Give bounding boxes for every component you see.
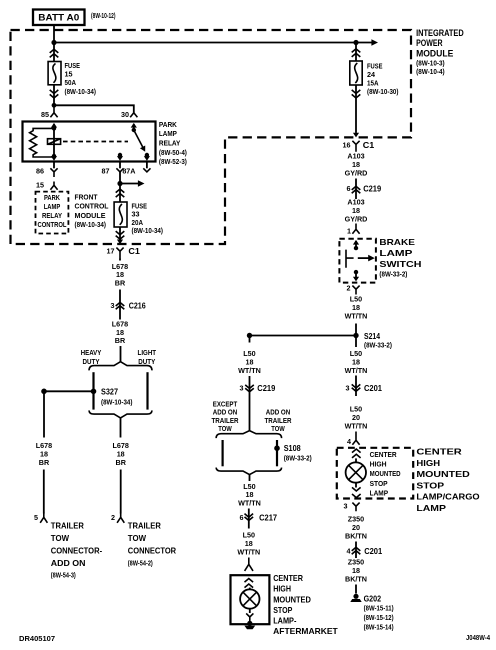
svg-text:CONTROL: CONTROL xyxy=(75,202,110,211)
brake switch node bottom xyxy=(354,270,358,274)
relay actuation dashed link xyxy=(63,141,128,143)
wire fuse 24 to C1 16 xyxy=(355,85,357,133)
wire label L50 20 WT/TN xyxy=(345,405,368,431)
svg-text:C201: C201 xyxy=(364,546,382,556)
park lamp relay label xyxy=(159,120,187,166)
svg-text:WT/TN: WT/TN xyxy=(345,366,368,375)
svg-text:LAMP: LAMP xyxy=(416,503,446,513)
relay switch wire from 30 xyxy=(133,124,135,130)
svg-text:CENTER: CENTER xyxy=(416,447,461,457)
svg-text:GY/RD: GY/RD xyxy=(345,215,368,224)
brake switch node top xyxy=(354,246,358,250)
pin 4 center high mounted stop lamp xyxy=(347,432,360,447)
svg-text:DUTY: DUTY xyxy=(138,357,155,366)
svg-text:DR405107: DR405107 xyxy=(19,636,55,643)
svg-text:CENTER: CENTER xyxy=(273,574,303,583)
svg-text:BK/TN: BK/TN xyxy=(345,575,367,584)
brake switch actuation arrow xyxy=(358,255,375,262)
wire label L678 18 BR (upper) xyxy=(112,259,128,288)
svg-text:WT/TN: WT/TN xyxy=(238,366,261,375)
brake lamp switch dashed box xyxy=(339,239,376,283)
svg-text:LAMP-: LAMP- xyxy=(273,617,296,626)
svg-text:J048W-4: J048W-4 xyxy=(466,635,490,642)
svg-text:AFTERMARKET: AFTERMARKET xyxy=(273,627,338,636)
relay coil xyxy=(48,139,61,145)
svg-text:BR: BR xyxy=(115,336,126,345)
svg-text:MODULE: MODULE xyxy=(75,211,106,220)
chmsl exit chevrons xyxy=(352,487,361,497)
connector C219 (middle) xyxy=(240,383,276,393)
relay node contact 87A xyxy=(145,153,149,157)
svg-text:TRAILER: TRAILER xyxy=(128,522,161,531)
svg-text:MOUNTED: MOUNTED xyxy=(416,469,469,479)
wire to C219 middle xyxy=(249,376,251,431)
wire into fuse 15 xyxy=(53,43,55,62)
svg-text:BR: BR xyxy=(116,458,127,467)
svg-text:(8W-54-2): (8W-54-2) xyxy=(128,561,153,568)
splice S108 brace bottom xyxy=(216,468,282,475)
svg-text:MOUNTED: MOUNTED xyxy=(370,469,401,478)
pin 86 xyxy=(36,162,58,178)
svg-text:(8W-10-30): (8W-10-30) xyxy=(367,89,399,96)
svg-text:(8W-54-3): (8W-54-3) xyxy=(51,573,76,580)
splice S214 label xyxy=(364,331,392,350)
svg-text:BATT A0: BATT A0 xyxy=(38,13,79,23)
front control module dashed box xyxy=(36,192,69,234)
svg-text:FUSE: FUSE xyxy=(65,61,81,70)
wire to C216 xyxy=(119,290,121,320)
pin 87 xyxy=(102,162,124,176)
svg-text:6: 6 xyxy=(347,184,351,193)
svg-text:1: 1 xyxy=(347,227,351,236)
svg-text:LAMP: LAMP xyxy=(379,248,413,258)
chmsl lamp wire bottom xyxy=(355,483,357,488)
svg-text:(8W-10-34): (8W-10-34) xyxy=(65,89,97,96)
wire fuse 15 to relay split xyxy=(53,85,55,106)
node junction at fuse 33 xyxy=(117,181,122,186)
aftermarket lamp wire top xyxy=(249,588,251,590)
splice S108 label xyxy=(284,443,312,462)
svg-text:C1: C1 xyxy=(363,140,375,150)
svg-text:ADD ON: ADD ON xyxy=(51,559,86,568)
chmsl cargo label xyxy=(416,447,480,513)
wire fuse 33 to C1 xyxy=(119,227,121,240)
svg-text:3: 3 xyxy=(346,384,350,393)
svg-text:TOW: TOW xyxy=(51,534,69,543)
splice S327 label xyxy=(101,386,133,406)
fuse 33 label xyxy=(132,201,164,235)
wire battery to junction xyxy=(53,25,55,43)
svg-text:(8W-10-34): (8W-10-34) xyxy=(101,399,133,406)
svg-text:(8W-15-11): (8W-15-11) xyxy=(364,606,394,613)
lamp center high mounted stop xyxy=(346,462,366,482)
wire label Z350 20 BK/TN xyxy=(345,515,367,541)
wire label Z350 18 BK/TN xyxy=(345,558,367,584)
chmsl entry chevrons xyxy=(352,449,361,458)
svg-text:15A: 15A xyxy=(367,79,379,88)
border arrow at C1 16 xyxy=(353,133,359,138)
svg-text:TOW: TOW xyxy=(128,534,146,543)
aftermarket lamp label xyxy=(273,574,338,636)
svg-text:MODULE: MODULE xyxy=(416,48,453,58)
svg-text:(8W-10-34): (8W-10-34) xyxy=(75,222,107,229)
svg-text:87A: 87A xyxy=(122,167,135,176)
svg-text:C216: C216 xyxy=(129,300,146,310)
svg-text:LAMP: LAMP xyxy=(370,488,389,497)
wire label L50 18 WT/TN (middle upper) xyxy=(238,349,261,375)
node splice at battery feed xyxy=(51,40,56,45)
svg-text:FRONT: FRONT xyxy=(75,193,99,202)
svg-text:CONNECTOR: CONNECTOR xyxy=(128,546,176,555)
pin 2 brake lamp switch xyxy=(347,284,360,295)
wire label L50 18 WT/TN (brake out) xyxy=(345,295,368,321)
svg-text:C219: C219 xyxy=(363,184,381,194)
node middle tap xyxy=(247,333,252,338)
fuse 24 xyxy=(350,61,362,85)
wire label A103 18 GY/RD (upper) xyxy=(345,152,368,178)
integrated power module dashed outline xyxy=(11,30,412,244)
node tap left xyxy=(41,389,47,395)
svg-text:HIGH: HIGH xyxy=(370,460,387,469)
fuse 15 xyxy=(48,62,61,85)
splice S327 brace top xyxy=(89,362,152,371)
svg-text:3: 3 xyxy=(111,301,115,310)
svg-text:5: 5 xyxy=(34,513,38,522)
trailer tow connector add-on label xyxy=(51,522,103,580)
svg-text:BR: BR xyxy=(115,278,126,287)
connector C216 xyxy=(111,300,146,310)
pin 30 xyxy=(121,110,137,119)
svg-text:HIGH: HIGH xyxy=(416,458,440,468)
node junction to fuse 24 xyxy=(353,40,358,45)
pin 5 trailer tow add-on xyxy=(34,513,47,523)
aftermarket exit chevron xyxy=(246,613,253,621)
brake switch wire to contact xyxy=(355,241,357,248)
battery feed box BATT A0 xyxy=(33,10,85,26)
svg-text:(8W-33-2): (8W-33-2) xyxy=(379,271,407,278)
relay resistor xyxy=(30,128,54,157)
aftermarket lamp box xyxy=(231,575,270,624)
relay node contact 87 xyxy=(118,153,122,157)
svg-text:POWER: POWER xyxy=(416,38,443,48)
svg-text:G202: G202 xyxy=(364,593,382,603)
wire middle tap down xyxy=(249,336,251,343)
svg-text:3: 3 xyxy=(240,383,244,392)
svg-text:TOW: TOW xyxy=(271,424,285,433)
svg-text:WT/TN: WT/TN xyxy=(345,422,368,431)
svg-text:2: 2 xyxy=(111,513,115,522)
connector chevrons above fuse 33 xyxy=(116,189,125,197)
svg-text:TRAILER: TRAILER xyxy=(51,522,84,531)
trailer tow connector label xyxy=(128,522,176,568)
svg-text:C1: C1 xyxy=(128,246,140,256)
aftermarket entry chevrons xyxy=(245,579,254,588)
label except add on trailer tow xyxy=(212,400,240,434)
connector chevrons below fuse 24 xyxy=(352,90,361,98)
svg-text:18: 18 xyxy=(117,449,125,458)
pin 85 xyxy=(41,105,58,119)
connector C217 xyxy=(240,512,278,522)
splice S327 brace bottom xyxy=(89,410,152,418)
svg-text:WT/TN: WT/TN xyxy=(345,312,368,321)
svg-text:87: 87 xyxy=(102,167,110,176)
relay pin 87 exit arrow xyxy=(117,156,123,161)
svg-text:18: 18 xyxy=(40,449,48,458)
connector C1 pin 16 xyxy=(343,140,375,152)
label light duty xyxy=(138,348,157,366)
brake switch plate xyxy=(346,250,354,268)
svg-text:S214: S214 xyxy=(364,331,380,341)
connector C201 (upper) xyxy=(346,383,383,393)
splice S327 heavy duty bar xyxy=(92,372,94,409)
svg-text:15: 15 xyxy=(36,180,44,189)
wire S327 down xyxy=(120,418,122,438)
svg-text:S327: S327 xyxy=(101,386,118,396)
svg-text:RELAY: RELAY xyxy=(159,139,181,148)
connector chevrons below fuse 33 xyxy=(116,231,125,239)
border arrow at C1 17 xyxy=(117,240,123,245)
relay switch arm arrowhead xyxy=(140,145,148,153)
wire S108 down xyxy=(249,475,251,481)
arrow tap to right xyxy=(120,180,145,187)
svg-text:(8W-10-3): (8W-10-3) xyxy=(416,61,445,68)
svg-text:85: 85 xyxy=(41,110,49,119)
svg-text:INTEGRATED: INTEGRATED xyxy=(416,28,464,38)
wire to trailer tow xyxy=(120,470,122,514)
park lamp relay box xyxy=(23,122,156,162)
svg-text:16: 16 xyxy=(343,141,351,150)
wire to ground G202 xyxy=(355,585,357,594)
wire label L50 18 WT/TN (right, below S214) xyxy=(345,349,368,375)
wire to S214 xyxy=(355,324,357,348)
label heavy duty xyxy=(81,348,102,366)
wire label L50 18 WT/TN (middle mid) xyxy=(238,482,261,507)
relay switch arm xyxy=(134,130,144,150)
chmsl inner label xyxy=(370,450,401,498)
wire to pin 30 xyxy=(54,105,134,113)
svg-text:STOP: STOP xyxy=(416,480,444,490)
wire label L678 18 BR (main) xyxy=(113,441,129,467)
wire label L50 18 WT/TN (middle lower) xyxy=(237,531,260,557)
fuse 15 label xyxy=(65,61,97,96)
svg-text:17: 17 xyxy=(107,247,115,256)
pin aftermarket lamp xyxy=(245,558,253,571)
svg-text:6: 6 xyxy=(240,513,244,522)
ground G202 label xyxy=(364,593,394,631)
pin 2 trailer tow xyxy=(111,513,124,523)
svg-text:(8W-50-4): (8W-50-4) xyxy=(159,150,187,157)
park lamp relay control label xyxy=(38,193,67,229)
fuse 24 label xyxy=(367,62,399,97)
svg-text:C201: C201 xyxy=(364,383,382,393)
node junction relay feed xyxy=(52,103,57,108)
svg-text:BR: BR xyxy=(39,458,50,467)
svg-text:CONNECTOR-: CONNECTOR- xyxy=(51,546,103,555)
wire S327 tap left xyxy=(44,390,94,392)
wire to C219 xyxy=(355,179,357,200)
wire to S327 split xyxy=(120,346,122,362)
svg-text:86: 86 xyxy=(36,167,44,176)
svg-text:PARK: PARK xyxy=(44,193,61,202)
svg-text:(8W-33-2): (8W-33-2) xyxy=(284,456,312,463)
connector C201 (lower) xyxy=(347,546,383,556)
svg-text:50A: 50A xyxy=(65,78,77,87)
svg-text:LAMP: LAMP xyxy=(44,202,61,211)
brake switch wire to exit xyxy=(355,272,357,277)
svg-text:DUTY: DUTY xyxy=(83,357,100,366)
splice S108 except bar xyxy=(222,440,224,466)
relay pin 86 exit arrow xyxy=(51,156,57,161)
wire to C201 xyxy=(355,376,357,397)
fuse 33 xyxy=(114,202,127,227)
svg-text:LAMP: LAMP xyxy=(159,129,177,138)
relay pin 30 entry arrow xyxy=(131,123,137,128)
wire S214 tap to middle xyxy=(250,335,357,337)
svg-text:S108: S108 xyxy=(284,443,301,453)
connector C1 pin 17 xyxy=(107,246,141,258)
wire label A103 18 GY/RD (lower) xyxy=(345,198,368,224)
svg-text:20A: 20A xyxy=(132,218,144,227)
svg-text:30: 30 xyxy=(121,110,129,119)
wire tap down xyxy=(43,391,45,437)
svg-text:CENTER: CENTER xyxy=(370,450,398,459)
svg-text:STOP: STOP xyxy=(273,606,293,615)
svg-text:HEAVY: HEAVY xyxy=(81,348,102,357)
integrated power module label xyxy=(416,28,464,76)
splice S108 node xyxy=(274,445,280,451)
svg-text:(8W-52-3): (8W-52-3) xyxy=(159,159,187,166)
pin 3 chmsl exit xyxy=(344,501,360,511)
chmsl lamp wire top xyxy=(355,458,357,462)
connector chevrons below fuse 15 xyxy=(50,90,59,98)
pin 87A xyxy=(122,162,150,176)
relay pin 87A exit arrow xyxy=(144,156,150,161)
svg-text:4: 4 xyxy=(347,437,351,446)
svg-text:C217: C217 xyxy=(259,512,277,522)
wire to C201 lower xyxy=(355,542,357,559)
svg-text:PARK: PARK xyxy=(159,120,178,129)
svg-text:3: 3 xyxy=(344,501,348,510)
svg-text:MOUNTED: MOUNTED xyxy=(273,595,311,604)
svg-text:(8W-33-2): (8W-33-2) xyxy=(364,343,392,350)
wire pin 87 down xyxy=(119,172,121,202)
connector chevrons above fuse 15 xyxy=(50,49,59,57)
svg-text:(8W-15-12): (8W-15-12) xyxy=(364,615,394,622)
svg-text:CONTROL: CONTROL xyxy=(38,220,67,229)
svg-text:C219: C219 xyxy=(257,383,275,393)
relay node coil bottom xyxy=(52,154,56,158)
lamp center high mounted stop aftermarket xyxy=(240,589,259,608)
svg-text:HIGH: HIGH xyxy=(273,584,291,593)
relay node coil top xyxy=(52,126,56,130)
wire label L678 18 BR (lower) xyxy=(112,320,128,346)
svg-text:(8W-15-14): (8W-15-14) xyxy=(364,625,394,632)
wire label L678 18 BR (add on) xyxy=(36,441,52,467)
splice S108 brace top xyxy=(216,431,282,439)
wire to C217 xyxy=(248,509,250,529)
splice S327 light duty bar xyxy=(146,372,148,409)
brake switch exit arrow xyxy=(353,277,359,282)
svg-text:LAMP/CARGO: LAMP/CARGO xyxy=(416,492,480,502)
label add on trailer tow xyxy=(265,408,293,433)
center high mounted stop lamp dashed box xyxy=(337,448,413,499)
ground G202 xyxy=(350,594,361,602)
svg-text:LIGHT: LIGHT xyxy=(138,348,157,357)
svg-text:WT/TN: WT/TN xyxy=(237,548,260,557)
wire junction to fuse 24 xyxy=(355,43,357,62)
svg-text:STOP: STOP xyxy=(370,479,388,488)
relay node switch pivot xyxy=(132,128,136,132)
svg-text:4: 4 xyxy=(347,547,351,556)
svg-text:GY/RD: GY/RD xyxy=(345,169,368,178)
splice S108 add-on bar xyxy=(276,440,278,466)
wire to trailer tow add-on xyxy=(43,470,45,514)
splice S327 node xyxy=(91,389,97,395)
pin 15 front control module xyxy=(36,180,58,189)
relay pin 85 entry arrow xyxy=(51,123,57,128)
svg-text:(8W-10-4): (8W-10-4) xyxy=(416,69,445,76)
relay coil wire xyxy=(53,124,55,156)
svg-text:BK/TN: BK/TN xyxy=(345,532,367,541)
svg-text:WT/TN: WT/TN xyxy=(238,498,261,507)
brake lamp switch label xyxy=(379,237,421,278)
aftermarket lamp wire bottom xyxy=(249,609,251,613)
connector C219 (right) xyxy=(347,184,382,194)
svg-text:BRAKE: BRAKE xyxy=(379,237,415,247)
svg-text:2: 2 xyxy=(347,284,351,293)
brake switch entry arrow xyxy=(353,240,359,245)
front control module label xyxy=(75,193,110,229)
svg-text:SWITCH: SWITCH xyxy=(379,259,421,269)
svg-text:(8W-10-34): (8W-10-34) xyxy=(132,228,164,235)
aftermarket case ground xyxy=(244,621,255,629)
svg-text:RELAY: RELAY xyxy=(42,211,62,220)
splice S214 node xyxy=(353,333,358,338)
arrow feed continues right xyxy=(371,39,378,46)
svg-text:TOW: TOW xyxy=(218,424,232,433)
wire top horizontal feed xyxy=(54,42,372,44)
pin 1 brake lamp switch xyxy=(347,224,360,236)
svg-text:(8W-10-12): (8W-10-12) xyxy=(91,13,116,20)
connector chevrons above fuse 24 xyxy=(352,49,361,57)
